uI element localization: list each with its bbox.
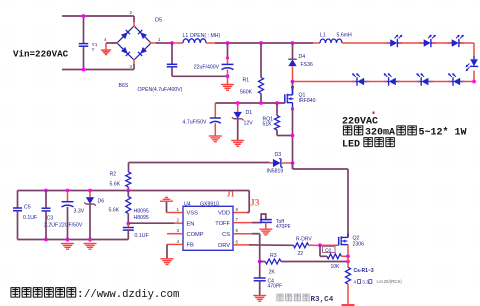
svg-text:1: 1 bbox=[158, 37, 161, 42]
svg-text://www.dzdiy.com: //www.dzdiy.com bbox=[84, 289, 179, 301]
svg-text:VDD: VDD bbox=[218, 211, 230, 217]
svg-text:4.7uF/50V: 4.7uF/50V bbox=[183, 120, 207, 126]
svg-text:H8095: H8095 bbox=[134, 209, 149, 215]
svg-text:CS: CS bbox=[222, 232, 230, 238]
svg-text:U4: U4 bbox=[184, 201, 191, 207]
svg-text:I=0.25/(RCS): I=0.25/(RCS) bbox=[377, 279, 403, 284]
svg-text:2.2UF: 2.2UF bbox=[44, 223, 58, 229]
svg-text:GX9910: GX9910 bbox=[200, 201, 219, 207]
svg-text:3: 3 bbox=[130, 64, 133, 69]
svg-text:2: 2 bbox=[177, 218, 180, 223]
svg-text:0.1UF: 0.1UF bbox=[135, 233, 149, 239]
svg-text:Cs-R1~3: Cs-R1~3 bbox=[354, 268, 374, 274]
svg-text:4: 4 bbox=[104, 37, 107, 42]
svg-text:470PF: 470PF bbox=[268, 284, 283, 290]
svg-text:7: 7 bbox=[236, 217, 239, 222]
svg-text:EN: EN bbox=[187, 221, 195, 227]
svg-text:D6: D6 bbox=[98, 198, 105, 204]
svg-text:LED: LED bbox=[342, 139, 360, 150]
svg-text:COMP: COMP bbox=[187, 232, 204, 238]
svg-text:FB: FB bbox=[187, 243, 194, 249]
svg-text:R1: R1 bbox=[243, 78, 250, 84]
svg-text:IN5819: IN5819 bbox=[267, 169, 284, 175]
svg-text:Q2: Q2 bbox=[325, 247, 332, 253]
svg-text:10K: 10K bbox=[331, 264, 341, 270]
svg-text:R3,C4: R3,C4 bbox=[311, 296, 334, 304]
svg-text:8: 8 bbox=[236, 207, 239, 212]
svg-text:6: 6 bbox=[236, 228, 239, 233]
svg-text:1: 1 bbox=[177, 207, 180, 212]
svg-text:R3: R3 bbox=[270, 253, 277, 259]
svg-text:5~12* 1W: 5~12* 1W bbox=[419, 127, 467, 139]
svg-text:D3: D3 bbox=[275, 152, 282, 158]
svg-text::: : bbox=[77, 289, 84, 301]
svg-text:L1: L1 bbox=[320, 33, 326, 39]
svg-text:B6S: B6S bbox=[119, 83, 129, 89]
svg-text:J1: J1 bbox=[227, 190, 235, 199]
svg-text:22UF/50V: 22UF/50V bbox=[59, 223, 83, 229]
svg-text:2: 2 bbox=[130, 10, 133, 15]
svg-text:C5: C5 bbox=[24, 205, 31, 211]
svg-text:3.3: 3.3 bbox=[362, 279, 369, 284]
svg-text:R-DRV: R-DRV bbox=[296, 236, 312, 242]
svg-text:R2: R2 bbox=[110, 172, 117, 178]
svg-text:TOFF: TOFF bbox=[215, 221, 230, 227]
svg-text:22uF/400V: 22uF/400V bbox=[194, 65, 220, 71]
svg-text:D4: D4 bbox=[299, 54, 306, 60]
svg-text:J3: J3 bbox=[250, 199, 260, 209]
svg-text:5.6K: 5.6K bbox=[110, 182, 121, 188]
svg-text:2306: 2306 bbox=[353, 242, 365, 248]
svg-text:3.3V: 3.3V bbox=[74, 209, 85, 215]
svg-text:Vin=220VAC: Vin=220VAC bbox=[13, 49, 69, 60]
svg-text:IRF840: IRF840 bbox=[299, 98, 316, 104]
svg-text:2K: 2K bbox=[269, 270, 276, 276]
svg-text:0.1UF: 0.1UF bbox=[23, 215, 37, 221]
svg-text:4: 4 bbox=[177, 239, 180, 244]
svg-text:C3: C3 bbox=[47, 216, 54, 222]
svg-text:470PF: 470PF bbox=[276, 224, 291, 230]
svg-text:H8095: H8095 bbox=[134, 215, 149, 221]
svg-text:51K: 51K bbox=[263, 121, 273, 127]
svg-text:D5: D5 bbox=[155, 18, 162, 24]
svg-text:5.6mH: 5.6mH bbox=[337, 33, 353, 39]
svg-text:560K: 560K bbox=[240, 90, 253, 96]
svg-text:FS36: FS36 bbox=[301, 62, 314, 68]
svg-text:22: 22 bbox=[298, 251, 304, 257]
svg-text:D1: D1 bbox=[246, 110, 253, 116]
svg-text:5.6K: 5.6K bbox=[109, 208, 120, 214]
svg-text:5: 5 bbox=[236, 239, 239, 244]
svg-text:12V: 12V bbox=[244, 121, 254, 127]
svg-text:4: 4 bbox=[354, 279, 357, 284]
svg-text:L1 OPEN( : MH): L1 OPEN( : MH) bbox=[183, 33, 221, 39]
svg-text:3: 3 bbox=[177, 228, 180, 233]
svg-text:320mA: 320mA bbox=[365, 128, 395, 139]
svg-text:VSS: VSS bbox=[187, 211, 199, 217]
svg-text:DRV: DRV bbox=[218, 243, 230, 249]
svg-text:OPEN(4.7uF/400V): OPEN(4.7uF/400V) bbox=[138, 87, 183, 93]
svg-text:Q2: Q2 bbox=[353, 236, 360, 242]
